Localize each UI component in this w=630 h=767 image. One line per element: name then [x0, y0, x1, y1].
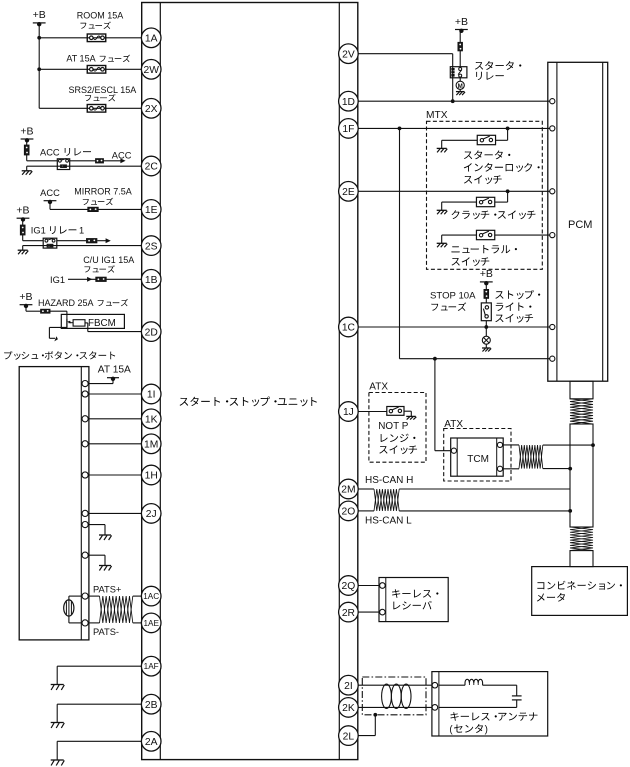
connector 1A [141, 28, 161, 48]
connector 1H [141, 465, 161, 485]
pin PCM (branch) [550, 356, 555, 361]
connector 1K [141, 409, 161, 429]
fusible link STOP 10A [484, 289, 489, 298]
connector 2C [141, 156, 161, 176]
pin PCM 1F [550, 126, 555, 131]
module combination meter [532, 567, 628, 616]
pin ground 1 [82, 522, 88, 528]
wire +B to stop switch [485, 283, 487, 303]
wire IG1 relay coil to 2S [23, 245, 142, 247]
label IG1 relay [31, 226, 84, 236]
wire FBCM to 2D [85, 323, 142, 332]
wire 1D to PCM [358, 100, 549, 102]
svg-text:1H: 1H [145, 471, 158, 482]
svg-text:2R: 2R [342, 608, 355, 619]
wire +B vertical bus [37, 24, 41, 108]
inductor antenna coil [465, 679, 483, 685]
connector 2L [339, 726, 359, 746]
svg-text:+B: +B [33, 9, 46, 21]
relay ACC [57, 159, 69, 170]
connector 1J [339, 402, 359, 422]
shield dash-dot box [362, 677, 426, 715]
svg-text:1AF: 1AF [144, 662, 159, 671]
switch starter interlock [477, 135, 495, 144]
label MTX [426, 110, 448, 121]
connector 2Q [339, 576, 359, 596]
ground (IG1 relay) [18, 246, 29, 255]
connector 2J [141, 504, 161, 524]
pin to 2J [82, 510, 88, 516]
svg-text:1J: 1J [343, 407, 354, 418]
svg-text:HS-CAN H: HS-CAN H [365, 475, 413, 486]
wire 1C to PCM [358, 326, 549, 328]
wire 2L to shield [358, 713, 377, 736]
label start-stop unit [180, 397, 317, 407]
svg-text:M: M [458, 83, 463, 90]
wire twist to 1AE [133, 622, 142, 624]
wire 2I to antenna [358, 684, 432, 686]
svg-text:SRS2/ESCL 15A: SRS2/ESCL 15A [69, 85, 137, 95]
svg-text:2E: 2E [342, 187, 355, 198]
connector 2V [339, 44, 359, 64]
wire to 2X [39, 107, 142, 109]
wire 2V to relay coil [358, 54, 453, 101]
svg-text:1F: 1F [342, 124, 354, 135]
cable shield box [570, 424, 593, 527]
wire TCM CAN-L [503, 468, 519, 470]
label ATX (TCM) [444, 419, 463, 430]
pin (AT15A) [82, 381, 88, 387]
wire 1J to switch [358, 411, 387, 413]
svg-text:FBCM: FBCM [88, 318, 116, 329]
pin receiver 2R [380, 609, 386, 615]
connector 2W [141, 60, 161, 80]
wire ACC relay coil to 2C [27, 165, 142, 167]
fuse ROOM 15A [87, 34, 106, 42]
svg-text:ATX: ATX [369, 382, 388, 393]
connector 1D [339, 91, 359, 111]
wire CAN-L to bus [399, 509, 572, 513]
svg-text:ACC: ACC [112, 151, 132, 161]
label AT 15A fuse [66, 54, 130, 64]
arrow ACC feed [120, 158, 125, 163]
svg-text:AT 15A: AT 15A [66, 54, 95, 64]
svg-text:1AE: 1AE [143, 619, 159, 628]
wire 1F branch to PCM [400, 128, 550, 360]
wire pin-1K [88, 418, 142, 420]
ground (ACC relay) [22, 166, 33, 175]
fuse AT 15A [87, 66, 106, 74]
svg-text:+B: +B [20, 125, 33, 137]
connector 2E [339, 182, 359, 202]
ground (2A) [51, 760, 65, 766]
pin TCM CAN-L [497, 466, 502, 471]
label clutch switch [452, 210, 536, 219]
svg-text:C/U IG1 15A: C/U IG1 15A [83, 255, 134, 265]
fuse MIRROR 7.5A [88, 207, 99, 211]
wire interlock left-ground [437, 140, 478, 152]
wire 2A to ground [57, 741, 142, 760]
ground (1AF) [51, 685, 65, 691]
label keyless receiver [392, 589, 438, 609]
connector 1F [339, 119, 359, 139]
label keyless antenna [449, 712, 537, 735]
svg-text:IG1: IG1 [31, 226, 46, 236]
connector 1E [141, 200, 161, 220]
module FBCM [61, 314, 124, 328]
wire +B to starter relay [459, 31, 461, 67]
svg-text:2D: 2D [145, 327, 158, 338]
wire pin-2J [88, 512, 142, 514]
cable connector (PCM tab) [570, 381, 593, 399]
twisted pair PATS [100, 596, 133, 623]
wire 2E to PCM [358, 189, 549, 193]
connector 1I [141, 384, 161, 404]
connector 2O [339, 501, 359, 521]
connector 1AF [141, 656, 161, 676]
wire IG1 relay output [57, 240, 107, 242]
power +B node (IG1 relay) [16, 205, 29, 222]
label ATX (NOT P) [369, 382, 388, 393]
start-stop unit box [142, 3, 358, 760]
pin PCM 2E [550, 189, 555, 194]
label HAZARD 25A fuse [38, 298, 128, 308]
svg-text:1M: 1M [144, 440, 158, 451]
svg-text:1C: 1C [342, 323, 356, 334]
svg-text:1B: 1B [145, 275, 158, 286]
svg-text:2O: 2O [342, 507, 356, 518]
svg-text:MIRROR 7.5A: MIRROR 7.5A [74, 187, 132, 197]
twisted cable upper [570, 399, 593, 424]
wire 2M to twist [358, 488, 374, 490]
label ACC (arrow) [112, 151, 132, 161]
wire IG1 to 1B [68, 278, 142, 280]
svg-text:2I: 2I [344, 681, 353, 692]
label starter relay [475, 61, 521, 80]
wire PATS+ to twist [88, 595, 99, 597]
label ROOM 15A [77, 10, 124, 20]
wire +B to hazard fuse [26, 306, 41, 311]
svg-text:ACC: ACC [40, 147, 60, 157]
svg-text:MTX: MTX [426, 110, 448, 121]
module TCM [451, 438, 504, 476]
power ACC node (MIRROR) [40, 188, 60, 204]
label MIRROR 7.5A [74, 187, 132, 197]
pin to 1H [82, 472, 88, 478]
wire 1F to PCM [358, 126, 549, 130]
pin PCM 1C [550, 324, 555, 329]
fuse C/U IG1 15A [96, 277, 107, 281]
svg-text:STOP 10A: STOP 10A [430, 291, 476, 302]
capacitor antenna [512, 696, 522, 700]
svg-text:1D: 1D [342, 97, 355, 108]
svg-text:NOT P: NOT P [378, 421, 408, 432]
twisted pair HS-CAN [374, 489, 399, 511]
label starter interlock switch [464, 150, 540, 184]
wire NOT P right-ground [404, 411, 416, 419]
MTX dashed box [427, 121, 543, 269]
wire pin-1H [88, 474, 142, 476]
connector 1C [339, 317, 359, 337]
svg-text:PCM: PCM [568, 219, 592, 231]
connector 1AE [141, 613, 161, 633]
pin PCM 1D [550, 99, 555, 104]
svg-text:2B: 2B [145, 700, 158, 711]
svg-text:1E: 1E [145, 205, 158, 216]
wire 2O to twist [358, 510, 374, 512]
connector 2X [141, 99, 161, 119]
wire FBCM emitter out [49, 327, 67, 341]
connector 2R [339, 602, 359, 622]
svg-text:TCM: TCM [467, 454, 489, 465]
switch clutch [476, 197, 494, 206]
fusible link (starter relay) [458, 42, 463, 51]
module PCM [548, 62, 608, 381]
power AT15A node [107, 377, 119, 381]
svg-text:PATS-: PATS- [93, 627, 119, 637]
svg-text:2W: 2W [143, 65, 159, 76]
wire PATS- to twist [88, 622, 99, 624]
wire AT15A to pin [89, 379, 113, 384]
wire CAN-H to bus [399, 488, 570, 490]
wire clutch right [495, 191, 508, 202]
connector 1B [141, 270, 161, 290]
wire clutch left-ground [437, 202, 477, 214]
cable connector (meter tab) [570, 551, 593, 567]
connector 2K [339, 698, 359, 718]
svg-text:1K: 1K [145, 415, 158, 426]
label NOT P range switch [378, 421, 417, 454]
wire +B to ACC relay [27, 140, 58, 161]
svg-text:1I: 1I [147, 390, 156, 401]
svg-text:2A: 2A [145, 737, 158, 748]
svg-text:2J: 2J [146, 509, 157, 520]
pin antenna 2I [432, 682, 438, 688]
wire cap to bottom [439, 700, 517, 708]
connector 2S [141, 236, 161, 256]
wire 1AF to ground [57, 666, 142, 684]
wire ACC relay output [70, 160, 121, 162]
svg-text:2S: 2S [145, 241, 158, 252]
svg-text:+B: +B [455, 16, 468, 28]
fusible link (IG1 relay) [20, 225, 25, 235]
svg-text:AT 15A: AT 15A [98, 365, 131, 376]
svg-text:+B: +B [19, 291, 32, 303]
connector 2I [339, 675, 359, 695]
svg-text:1: 1 [79, 226, 84, 236]
wire coil to cap [483, 685, 517, 696]
power +B node (HAZARD) [19, 291, 32, 308]
fuse (ACC output) [96, 159, 104, 163]
label IG1 [50, 275, 65, 285]
svg-text:ROOM 15A: ROOM 15A [77, 10, 124, 20]
svg-text:2L: 2L [343, 731, 355, 742]
wire 2R to receiver [358, 611, 380, 613]
svg-text:+B: +B [480, 268, 493, 280]
connector 2B [141, 694, 161, 714]
label fuse (ROOM) [80, 22, 110, 29]
pin antenna 2K [432, 705, 438, 711]
label combination meter [537, 581, 622, 602]
label PATS- [93, 627, 119, 637]
svg-text:): ) [485, 724, 488, 735]
twisted cable lower [570, 527, 593, 551]
label HS-CAN H [365, 475, 413, 486]
fusible link (ACC relay) [24, 145, 29, 155]
junction relay-1D [451, 99, 455, 103]
arrow IG1 feed [106, 238, 111, 243]
module keyless receiver [379, 578, 448, 622]
svg-text:+B: +B [16, 205, 29, 217]
svg-text:HS-CAN L: HS-CAN L [365, 515, 412, 526]
pin PATS+ [82, 593, 88, 599]
pin PCM neutral [550, 233, 555, 238]
wire 2K to antenna [358, 706, 432, 708]
wire TCM CAN-H [503, 444, 519, 446]
svg-text:2M: 2M [341, 485, 355, 496]
wire to 1A [39, 37, 142, 39]
pin ground 2 [82, 552, 88, 558]
svg-text:2K: 2K [342, 703, 355, 714]
wire antenna top [439, 684, 465, 686]
connector 1AC [141, 586, 161, 606]
label fuse (SRS2) [85, 94, 115, 101]
pin to 1I [82, 391, 88, 397]
svg-text:HAZARD 25A: HAZARD 25A [38, 298, 94, 308]
switch neutral [476, 230, 494, 239]
ATX dashed box (TCM) [444, 429, 511, 482]
label HS-CAN L [365, 515, 412, 526]
relay IG1-1 [43, 238, 57, 248]
pin PATS- [82, 620, 88, 626]
label AT 15A (push start) [98, 365, 131, 376]
twisted pair TCM CAN [519, 445, 543, 469]
label ACC relay [40, 147, 91, 157]
fuse HAZARD 25A [41, 309, 51, 313]
label SRS2/ESCL 15A [69, 85, 137, 95]
wire twist to 1AC [133, 595, 142, 597]
label PATS+ [93, 585, 121, 595]
wire branch to TCM [435, 359, 451, 451]
push button start box [19, 367, 89, 640]
arrow IG1 wire [87, 277, 92, 282]
wire neutral left-ground [437, 235, 477, 247]
label C/U IG1 15A [83, 255, 134, 265]
pin to 1M [82, 441, 88, 447]
wire stop switch down [484, 321, 488, 337]
svg-text:2C: 2C [145, 162, 159, 173]
connector 2M [339, 479, 359, 499]
module keyless antenna box [432, 672, 548, 736]
fuse SRS2/ESCL 15A [87, 105, 106, 113]
transistor (FBCM) [67, 318, 73, 328]
svg-text:ACC: ACC [40, 188, 60, 198]
label fuse (MIRROR) [83, 198, 113, 205]
pin to 1K [82, 416, 88, 422]
label fuse (STOP) [431, 302, 466, 310]
svg-text:1A: 1A [145, 34, 158, 45]
ATX dashed box (NOT P) [369, 393, 426, 463]
wire pin-1I [88, 393, 142, 395]
wire 2B to ground [57, 704, 142, 722]
switch NOT P range [387, 407, 404, 416]
svg-text:2Q: 2Q [342, 581, 356, 592]
relay starter [450, 67, 467, 78]
switch stop light [481, 303, 491, 321]
wire TCM CAN-L to bus [543, 467, 572, 471]
ground (2B) [51, 723, 65, 729]
wire TCM CAN-H to bus [543, 443, 595, 447]
resistor (FBCM) [73, 320, 85, 326]
motor starter [456, 78, 464, 90]
ground (stop lamp) [482, 344, 491, 351]
label fuse (C/U IG1) [84, 265, 114, 272]
label neutral switch [451, 245, 517, 266]
fuse (IG1 output) [86, 239, 97, 243]
svg-text:PATS+: PATS+ [93, 585, 121, 595]
wire-ground 1 [88, 525, 111, 540]
wire pin-1M [88, 443, 142, 445]
connector 2D [141, 322, 161, 342]
wire 2Q to receiver [358, 585, 380, 587]
svg-text:1AC: 1AC [143, 592, 159, 601]
label stop light switch [495, 290, 540, 323]
svg-text:IG1: IG1 [50, 275, 65, 285]
wire-ground 2 [88, 555, 111, 570]
label STOP 10A [430, 291, 476, 302]
connector 2A [141, 732, 161, 752]
power +B node (STOP) [480, 268, 493, 285]
ground (starter motor) [456, 89, 465, 95]
wire to 2W [39, 68, 142, 70]
power +B node (ACC relay) [20, 125, 33, 142]
coax loops [382, 684, 411, 708]
label push button start [4, 351, 115, 360]
pin receiver 2Q [380, 583, 386, 589]
connector 1M [141, 434, 161, 454]
pin TCM left [451, 448, 456, 453]
wire interlock right [496, 128, 508, 140]
wire ACC to 1E [50, 202, 142, 209]
pin TCM CAN-H [497, 442, 502, 447]
svg-text:2X: 2X [145, 104, 158, 115]
wire fuse to FBCM [50, 311, 67, 318]
lamp stop light [482, 336, 490, 344]
immobilizer coil [64, 596, 82, 623]
power +B node (top left) [33, 9, 46, 26]
wire +B to IG1 relay [23, 220, 44, 241]
svg-text:2V: 2V [342, 49, 355, 60]
power +B node (starter relay) [455, 16, 468, 33]
wire neutral right to PCM [495, 234, 550, 236]
